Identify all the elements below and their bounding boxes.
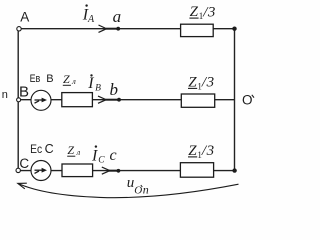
resistor ZL phase C: [62, 164, 93, 177]
svg-text:n: n: [143, 183, 149, 197]
current arrow IC: [102, 167, 110, 174]
current arrow IA: [99, 25, 107, 32]
resistor Z1/3 phase C: [180, 163, 213, 178]
svg-text:B: B: [95, 83, 101, 93]
node b: [117, 98, 121, 102]
svg-text:n: n: [2, 89, 8, 101]
svg-text:u: u: [127, 175, 135, 191]
terminal B: [17, 98, 21, 102]
wire left bus n: [17, 29, 19, 170]
current arrow IB: [98, 96, 106, 103]
node c: [117, 169, 121, 173]
resistor Z1/3 phase B: [181, 94, 214, 107]
svg-text:A: A: [87, 14, 95, 25]
svg-text:O: O: [242, 92, 253, 107]
svg-text:л: л: [71, 76, 76, 86]
svg-text:Z: Z: [67, 143, 74, 157]
svg-text:b: b: [110, 80, 119, 99]
svg-text:B: B: [46, 73, 53, 85]
svg-text:Z: Z: [63, 72, 70, 86]
svg-text:3: 3: [206, 75, 215, 91]
terminal C: [16, 168, 20, 172]
node a: [116, 27, 120, 31]
svg-text:3: 3: [206, 143, 215, 159]
svg-text:Eв: Eв: [30, 73, 41, 85]
wire phase B: [19, 99, 235, 101]
svg-text:Ec: Ec: [30, 142, 42, 156]
resistor Z1/3 phase A: [181, 24, 214, 36]
wire right bus O': [234, 29, 236, 171]
svg-text:C: C: [98, 156, 105, 166]
terminal A: [17, 27, 21, 31]
svg-text:c: c: [110, 147, 117, 164]
svg-text:3: 3: [207, 4, 216, 20]
resistor ZL phase B: [62, 93, 93, 107]
svg-text:A: A: [20, 9, 29, 24]
junction bottom right: [232, 168, 236, 172]
svg-text:л: л: [76, 147, 81, 157]
svg-text:I: I: [91, 147, 98, 164]
svg-text:C: C: [19, 156, 29, 171]
EMF source EC: [31, 161, 51, 181]
svg-text:a: a: [113, 7, 122, 26]
svg-text:C: C: [45, 142, 54, 156]
wire phase A: [19, 28, 235, 30]
EMF source EB: [31, 90, 51, 110]
junction top right: [232, 27, 236, 31]
svg-text:I: I: [87, 75, 94, 92]
svg-text:B: B: [19, 84, 29, 101]
wire phase C: [18, 170, 234, 172]
svg-text:O: O: [134, 185, 142, 197]
voltage curve uO'n: [18, 183, 239, 197]
